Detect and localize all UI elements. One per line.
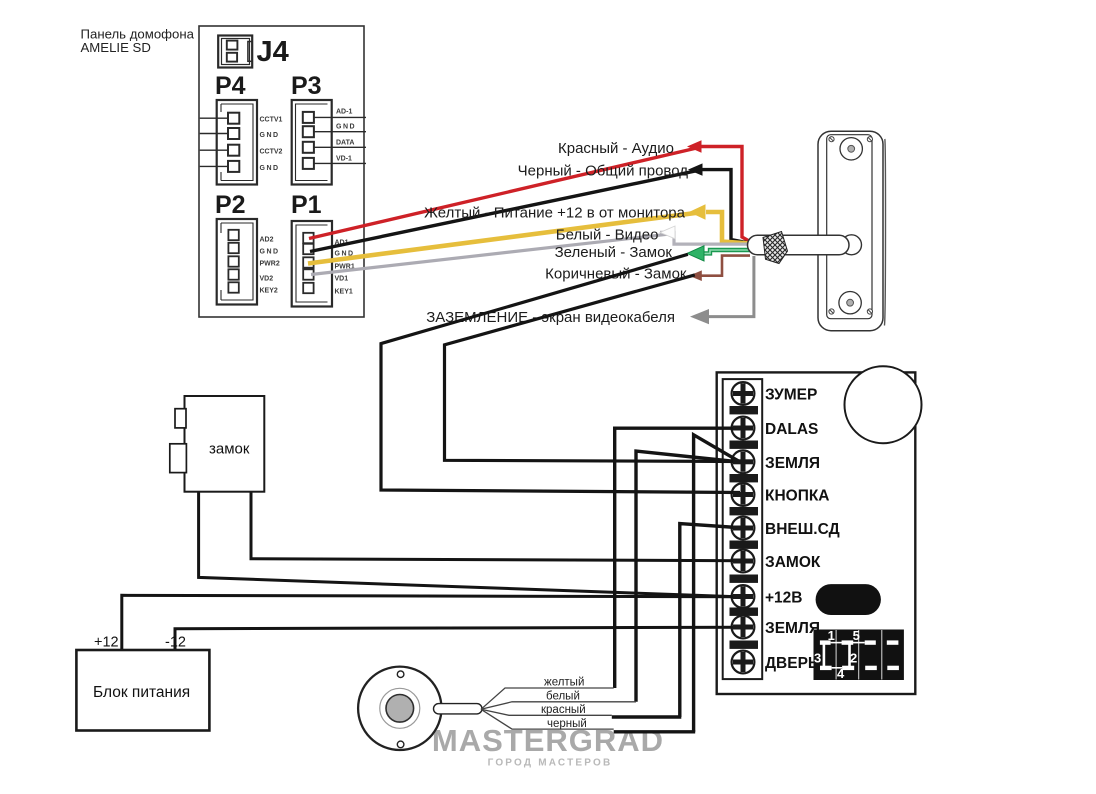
svg-text:Белый - Видео: Белый - Видео [556,226,659,243]
wire PSU +12 [122,595,744,650]
svg-text:CCTV1: CCTV1 [260,117,283,124]
svg-text:PWR2: PWR2 [260,261,280,268]
connector P4 [217,100,257,185]
svg-text:P3: P3 [291,72,322,100]
svg-text:КНОПКА: КНОПКА [765,488,830,505]
svg-text:CCTV2: CCTV2 [260,149,283,156]
reader wire labels [541,677,587,731]
board big circle [845,366,922,443]
svg-text:AD2: AD2 [260,237,274,244]
P3 pin labels [336,109,356,163]
svg-text:P4: P4 [215,72,246,100]
door panel camera circle [840,138,862,160]
svg-text:VD2: VD2 [260,276,274,283]
cable capsule body [748,235,850,255]
svg-text:VD1: VD1 [335,276,349,283]
svg-text:GND: GND [336,124,356,131]
reader mid ring [380,688,420,728]
reader outer circle [358,667,441,750]
arrow black [688,163,703,175]
svg-text:ЗУМЕР: ЗУМЕР [765,387,817,404]
door panel screws [829,137,873,315]
P2 pin labels [260,237,280,295]
svg-text:+12: +12 [94,635,119,651]
svg-text:замок: замок [209,441,250,458]
wire red from cable to arrow [701,147,749,242]
wire black-reader to ZEMLYA [694,435,741,732]
wire green from cable to arrow [702,250,750,253]
P3 pins [303,112,314,169]
wire black diagonal from P1 pin2 [310,170,702,252]
arrow red [687,140,702,152]
reader stem [434,704,483,714]
wire red-reader to VNESH.SD [680,524,744,717]
wire lock-right to ZAMOK [251,492,744,561]
connector P1 [292,221,332,307]
svg-text:AMELIE SD: AMELIE SD [81,40,151,55]
lock tab big [170,444,187,473]
svg-text:KEY1: KEY1 [335,289,353,296]
cable hatched wrap [763,232,788,264]
arrow brown [689,270,702,281]
svg-text:ДВЕРЬ: ДВЕРЬ [765,655,819,672]
wire black diag2 brown-arrow to ZEMLYA [445,275,745,462]
wire white-reader to ZEMLYA [636,451,740,702]
reader inner button [386,695,414,723]
svg-text:4: 4 [837,666,845,681]
reader screw bottom [397,741,404,748]
svg-text:P1: P1 [291,191,322,219]
svg-text:VD-1: VD-1 [336,156,352,163]
svg-text:AD-1: AD-1 [336,109,352,116]
wire gray-white diagonal from P1 pin4 [311,234,668,274]
connector J4 [218,36,252,68]
svg-text:5: 5 [853,628,860,643]
arrow gray shield [690,309,709,324]
connector P3 [292,100,332,185]
arrow white [660,226,675,239]
dip relay block [814,628,904,681]
reader fan lines [481,688,636,729]
intercom panel box [199,26,364,317]
svg-text:MASTERGRAD: MASTERGRAD [432,723,664,758]
svg-text:KEY2: KEY2 [260,288,278,295]
svg-text:Зеленый - Замок: Зеленый - Замок [555,244,673,261]
svg-text:3: 3 [814,651,821,666]
svg-text:ЗЕМЛЯ: ЗЕМЛЯ [765,620,820,637]
wire white from cable to label [660,232,750,244]
svg-text:Черный - Общий провод: Черный - Общий провод [518,163,689,180]
svg-text:ВНЕШ.СД: ВНЕШ.СД [765,521,840,538]
terminal separator bars [730,406,759,649]
door panel inner plate [827,135,872,319]
svg-text:GND: GND [260,165,280,172]
terminal strip [723,379,763,679]
lock tab small [175,409,186,428]
svg-text:-12: -12 [165,635,186,651]
svg-text:Желтый - Питание +12 в от мони: Желтый - Питание +12 в от монитора [424,204,686,221]
svg-text:DATA: DATA [336,140,354,147]
svg-text:1: 1 [828,628,835,643]
connector P2 [217,219,257,305]
door panel body [818,131,883,331]
P4 pin labels [260,117,283,173]
svg-text:GND: GND [260,132,280,139]
svg-text:ЗЕМЛЯ: ЗЕМЛЯ [765,455,820,472]
wire yellow from cable to arrow [706,212,750,244]
P2 pins [228,230,238,293]
svg-text:2: 2 [850,651,857,666]
reader screw top [397,671,404,678]
svg-text:ГОРОД МАСТЕРОВ: ГОРОД МАСТЕРОВ [488,758,613,769]
P3 pin wires to box edge [314,117,366,163]
svg-text:красный: красный [541,704,586,716]
wire brown from cable to arrow [700,256,750,276]
wire black diag1 green-arrow to KNOPKA [381,254,740,492]
svg-text:+12В: +12В [765,590,803,607]
relay pill [816,584,881,615]
cable end knob [842,235,862,255]
svg-text:ЗАЗЕМЛЕНИЕ - экран видеокабеля: ЗАЗЕМЛЕНИЕ - экран видеокабеля [426,309,675,326]
terminal screws [732,382,755,673]
terminal labels [765,387,840,673]
arrow green [687,246,704,261]
wire red diagonal from P1 pin1 [309,147,701,239]
P1 pin labels [335,240,355,296]
door panel speaker circle [839,292,861,314]
control board outer [717,372,916,694]
reader thick wire red horizontal [612,715,682,718]
lock box [185,396,265,492]
reader thick wire black horizontal [614,730,696,733]
svg-text:Блок питания: Блок питания [93,684,190,701]
svg-text:GND: GND [260,249,280,256]
P4 pin wires to box edge [200,118,228,166]
wire PSU -12 [175,627,744,650]
wire yellow-reader to DALAS [615,428,744,688]
P4 pins [228,113,239,172]
svg-text:белый: белый [546,691,580,703]
wire lock-left to +12V [199,492,744,597]
arrow yellow [689,204,706,220]
svg-text:ЗАМОК: ЗАМОК [765,554,821,571]
P1 pins [303,233,313,293]
svg-text:Красный - Аудио: Красный - Аудио [558,140,674,157]
screws crosses [733,384,753,673]
svg-text:J4: J4 [257,36,289,68]
wire gray shield from cable to arrow [707,256,754,317]
wire yellow diagonal from P1 pin3 [308,212,703,264]
power supply box [76,650,209,731]
svg-text:DALAS: DALAS [765,421,818,438]
door panel shadow edge [884,139,885,326]
wire black from cable to arrow [702,170,749,243]
svg-text:желтый: желтый [544,677,584,689]
svg-text:P2: P2 [215,191,246,219]
